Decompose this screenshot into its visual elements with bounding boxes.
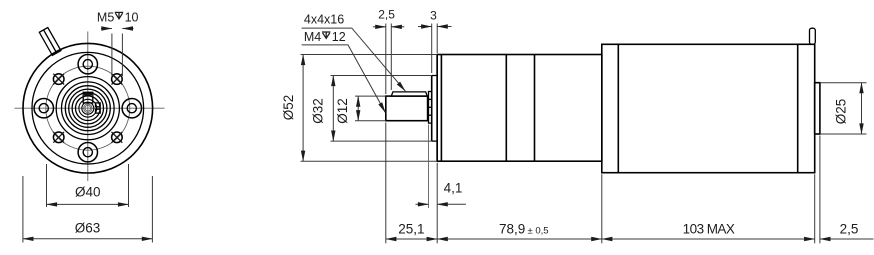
through hole top [78,54,97,73]
leader 4x4x16 (key) [302,12,406,91]
svg-text:M4: M4 [304,30,321,44]
tapped hole M5 upper-right [112,74,123,85]
dimension 78,9 +-0,5 [437,221,602,239]
flange chamfer circle [32,52,144,164]
face ring circle r26 [62,82,115,135]
gearbox front plate [437,55,441,162]
tapped hole M5 lower-left [53,132,64,143]
hub ring circle r15 [72,93,103,124]
dimension 2,5 rear boss [820,221,874,239]
svg-text:Ø52: Ø52 [281,95,296,121]
dimension M5 depth 10 [97,10,139,76]
tapped hole M5 lower-right [112,132,123,143]
svg-text:Ø12: Ø12 [335,98,350,124]
svg-text:± 0,5: ± 0,5 [528,225,549,236]
svg-text:103 MAX: 103 MAX [683,221,735,236]
bolt circle [46,66,130,150]
dimension D52 [281,55,437,162]
svg-text:Ø25: Ø25 [834,99,849,125]
centerline horizontal [15,107,165,109]
shaft circle D12 [76,96,101,121]
motor outline circle D63 [23,43,153,173]
svg-text:Ø63: Ø63 [75,221,101,236]
svg-text:10: 10 [125,10,139,24]
output shaft D12 [386,96,428,121]
pilot boss circle D32 [56,77,119,140]
gearbox housing D52 [437,55,602,162]
through hole bottom [78,143,97,162]
svg-text:4,1: 4,1 [444,181,463,196]
centerline vertical [87,32,89,182]
pilot boss D32 front face [432,76,438,142]
dimension 4,1 [416,125,466,209]
center tap hole M4 [85,105,91,111]
svg-text:25,1: 25,1 [398,221,424,236]
washer tab upper (front view) [96,103,101,107]
motor body D63 [602,44,815,172]
extension line boss rear [819,136,821,244]
dimension 103 MAX [602,221,815,239]
svg-text:M5: M5 [97,10,114,24]
key 4x4x16 [391,92,427,96]
dimension 25,1 [386,221,437,239]
through hole left [34,99,53,118]
svg-text:Ø32: Ø32 [311,98,326,124]
svg-text:Ø40: Ø40 [75,184,101,199]
leader M4 depth 12 (tapped hole in shaft end) [302,30,386,113]
washer tab lower (front view) [96,109,101,113]
through hole right [122,99,141,118]
svg-text:3: 3 [430,9,437,23]
svg-text:78,9: 78,9 [499,221,525,236]
dimension D40 bolt circle [47,164,129,207]
dimension D32 [311,76,432,142]
shaft step circle r8.5 [79,99,97,117]
dimension D63 outer [23,176,153,243]
dimension 3 (boss thickness) [418,9,452,74]
rear boss D25 [815,83,820,134]
extension line gearbox face [436,163,438,244]
terminal tab top-left [39,28,61,56]
center ring outer r6 [82,102,94,114]
extension line motor front [601,174,603,243]
extension line motor rear [814,174,816,243]
svg-text:2,5: 2,5 [378,7,395,21]
hub ring circle r18.6 [69,89,107,127]
face ring circle r22 [65,86,110,131]
dimension D12 [335,96,386,124]
keyway and key (front view) [83,92,93,103]
svg-text:2,5: 2,5 [840,221,859,236]
svg-text:4x4x16: 4x4x16 [304,12,344,26]
terminal lug top right [810,28,816,44]
tapped hole M5 upper-left [53,74,64,85]
washer stack on shaft [429,92,432,124]
center ring inner r4.2 [84,104,92,112]
dimension D25 [820,83,867,134]
svg-text:12: 12 [332,30,346,44]
dimension 2,5 (shaft end to key) [373,7,405,94]
extension line shaft end [385,123,387,244]
